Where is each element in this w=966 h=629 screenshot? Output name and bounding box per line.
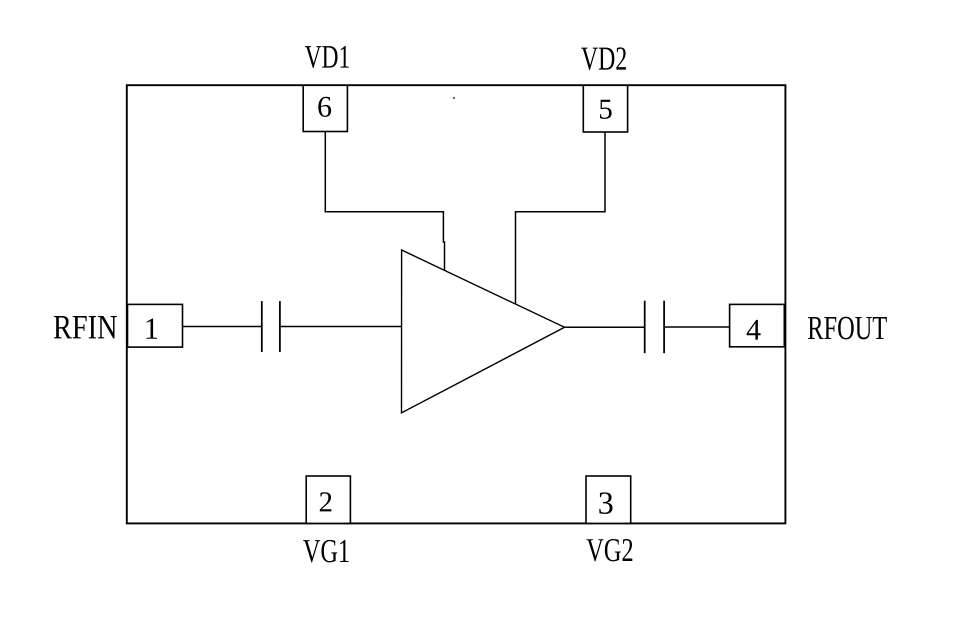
label RFIN: [54, 316, 117, 338]
pin 1: [128, 304, 183, 347]
capacitor C2 left plate: [644, 301, 646, 354]
stray dot: [453, 97, 455, 99]
label VD2: [581, 47, 626, 70]
label RFOUT: [808, 317, 887, 340]
wire C2 to pin4: [664, 326, 730, 328]
wire pin5 to amplifier: [516, 132, 606, 304]
label VG1: [303, 540, 348, 563]
package outline: [127, 85, 786, 523]
pin 5: [583, 85, 627, 132]
pin 2: [306, 476, 350, 523]
capacitor C1 right plate: [279, 301, 281, 352]
wire pin6 to amplifier: [325, 132, 444, 271]
amplifier U1: [402, 250, 565, 413]
pin 6: [303, 85, 347, 131]
pin 3: [586, 476, 631, 523]
capacitor C1 left plate: [261, 301, 263, 352]
wire pin1 to C1: [183, 326, 263, 328]
label VG2: [587, 539, 633, 562]
label VD1: [305, 46, 349, 68]
wire amplifier to C2: [565, 326, 645, 328]
pin 4: [730, 304, 785, 346]
capacitor C2 right plate: [663, 301, 665, 354]
wire C1 to amplifier input: [280, 326, 402, 328]
